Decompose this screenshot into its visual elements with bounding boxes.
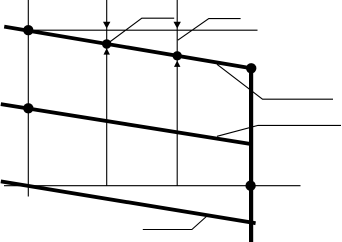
arrowhead A2 down (on V3 above H1) bbox=[174, 22, 181, 29]
node N3 (V2 x T1) bbox=[102, 39, 111, 48]
wire thick sloped conductor T3 (bottom span) bbox=[1, 181, 256, 223]
arrowhead A3 up (on V2 below node N3) bbox=[104, 48, 110, 55]
wire thick sloped conductor T2 (middle span) bbox=[1, 104, 253, 144]
node N5 (T1 x T4) bbox=[246, 63, 256, 73]
node N1 (V1 x T1) bbox=[23, 25, 33, 35]
wire vertical reference line V3 (middle-right) bbox=[176, 0, 178, 186]
wire horizontal reference line H2 (bottom) bbox=[4, 185, 301, 187]
arrowhead A1 down (on V2 above H1) bbox=[103, 22, 110, 29]
leader line L1 (from node N3 to upper label) bbox=[107, 18, 174, 44]
arrowhead A4 up (on V3 below node N4) bbox=[174, 61, 180, 67]
node N4 (V3 x T1) bbox=[173, 51, 182, 60]
wire horizontal reference line H1 (top) bbox=[26, 29, 258, 31]
wire vertical reference line V1 (left) bbox=[27, 0, 29, 197]
leader line LA (from conductor T1 to right label) bbox=[217, 64, 333, 99]
leader line LC (from conductor T3 to bottom label) bbox=[143, 215, 209, 230]
wire thick vertical conductor T4 (right) bbox=[249, 68, 253, 242]
node N6 (H2 x T4) bbox=[245, 181, 255, 191]
leader line L2 (from line V3 to upper label) bbox=[178, 19, 241, 41]
wire thick sloped conductor T1 (top span) bbox=[4, 27, 251, 69]
node N2 (V1 x T2) bbox=[23, 103, 33, 113]
leader line LB (from conductor T2 to right label) bbox=[217, 125, 341, 136]
wire vertical reference line V2 (middle-left) bbox=[106, 0, 108, 186]
